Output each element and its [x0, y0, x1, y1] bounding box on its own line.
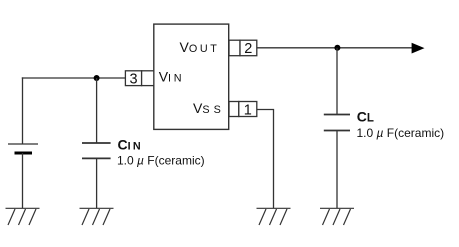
ground under CL: [320, 208, 354, 225]
svg-text:1.0 µ F(ceramic): 1.0 µ F(ceramic): [117, 154, 205, 168]
ground under battery: [6, 208, 40, 225]
wire output horizontal: [257, 47, 416, 49]
wire junction down to CL: [336, 48, 338, 115]
ground under VSS: [257, 208, 291, 225]
battery BT1 positive plate: [8, 143, 38, 145]
pin 1 tab: [229, 102, 239, 117]
wire VSS pin to ground corner: [257, 110, 274, 209]
capacitor CL top plate: [324, 114, 350, 116]
svg-text:1: 1: [244, 102, 252, 118]
wire input left vertical: [22, 77, 24, 144]
wire CL to ground: [336, 131, 338, 209]
capacitor CL bottom plate: [324, 130, 350, 132]
pin 3 tab: [142, 71, 154, 86]
pin 3 number box: [125, 71, 141, 86]
ground under CIN: [80, 208, 114, 225]
svg-text:3: 3: [129, 71, 137, 87]
svg-text:1.0 µ F(ceramic): 1.0 µ F(ceramic): [357, 126, 445, 140]
wire input horizontal: [22, 77, 126, 79]
output arrow head: [412, 43, 425, 54]
capacitor CIN bottom plate: [82, 157, 111, 159]
wire junction down to CIN: [96, 78, 98, 143]
node junction dot at VOUT: [334, 45, 340, 51]
regulator IC U1 body: [154, 24, 229, 129]
pin 1 number box: [239, 102, 257, 117]
pin 2 number box: [240, 40, 257, 56]
battery BT1 negative plate: [15, 152, 33, 155]
capacitor CIN top plate: [82, 142, 111, 144]
pin 2 tab: [229, 40, 240, 56]
wire battery to ground: [22, 153, 24, 208]
wire CIN to ground: [96, 158, 98, 208]
node junction dot at VIN: [94, 75, 100, 81]
svg-text:2: 2: [244, 41, 252, 57]
